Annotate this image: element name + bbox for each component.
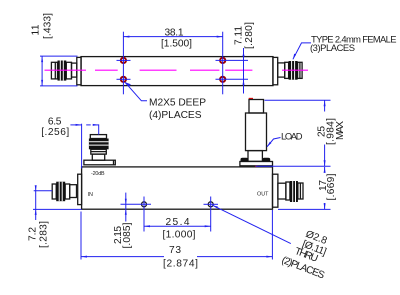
svg-text:[.085]: [.085] (122, 222, 133, 248)
svg-text:[.256]: [.256] (41, 127, 69, 138)
svg-text:73: 73 (169, 245, 181, 256)
svg-text:LOAD: LOAD (281, 130, 303, 141)
svg-text:[.280]: [.280] (244, 22, 255, 49)
svg-text:-20dB: -20dB (91, 171, 105, 177)
svg-text:38.1: 38.1 (165, 28, 184, 39)
svg-text:[.669]: [.669] (326, 173, 337, 200)
svg-text:OUT: OUT (257, 192, 269, 198)
svg-text:[1.500]: [1.500] (161, 39, 192, 50)
svg-text:M2X5 DEEP: M2X5 DEEP (149, 97, 206, 108)
svg-text:[.283]: [.283] (39, 221, 50, 248)
svg-text:7.2: 7.2 (28, 227, 39, 241)
svg-text:25.4: 25.4 (166, 217, 190, 228)
svg-text:(3)PLACES: (3)PLACES (310, 42, 355, 53)
svg-text:MAX: MAX (335, 121, 346, 140)
svg-text:IN: IN (88, 192, 93, 198)
svg-text:(4)PLACES: (4)PLACES (149, 110, 202, 121)
svg-text:11: 11 (30, 24, 41, 35)
svg-text:[.433]: [.433] (42, 13, 53, 39)
svg-text:[2.874]: [2.874] (163, 258, 198, 269)
svg-text:[1.000]: [1.000] (163, 229, 196, 240)
svg-text:7.11: 7.11 (233, 26, 244, 45)
